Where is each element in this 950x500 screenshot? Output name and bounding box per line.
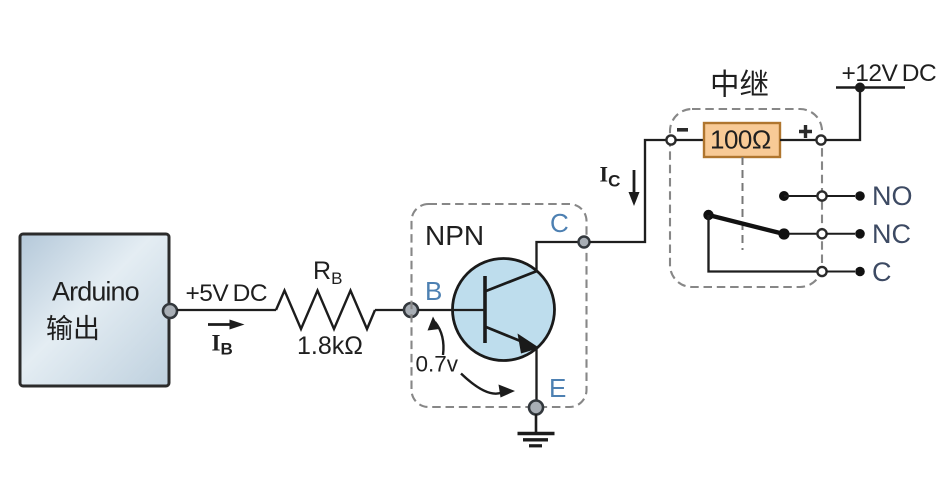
wire: +12VDC rail bbox=[836, 86, 905, 89]
svg-text:C: C bbox=[550, 208, 569, 238]
label minus bbox=[677, 128, 688, 132]
Arduino output block bbox=[20, 234, 169, 386]
node B bbox=[404, 303, 418, 317]
svg-text:+12V DC: +12V DC bbox=[842, 60, 937, 87]
wire: coil to + terminal bbox=[780, 139, 817, 141]
NPN dashed enclosure bbox=[412, 204, 587, 407]
svg-text:IC: IC bbox=[600, 162, 621, 191]
ground bbox=[518, 414, 555, 446]
wire: collector up bbox=[537, 242, 585, 271]
arrow IC current direction bbox=[629, 170, 640, 206]
contact C row bbox=[817, 267, 864, 277]
switch arm bbox=[709, 215, 785, 234]
svg-text:NC: NC bbox=[872, 219, 911, 249]
svg-text:1.8kΩ: 1.8kΩ bbox=[297, 332, 363, 360]
transistor Q1 body bbox=[453, 259, 555, 361]
svg-text:NPN: NPN bbox=[425, 220, 484, 251]
wire: collector to relay bbox=[590, 140, 668, 242]
contact NO row bbox=[779, 191, 865, 201]
arrow: 0.7v to emitter bbox=[461, 374, 515, 398]
switch pivot dot bbox=[703, 210, 713, 220]
switch arm end dot bbox=[778, 228, 789, 239]
node C bbox=[579, 237, 590, 248]
mechanical link dashed bbox=[742, 157, 744, 250]
wire: neg terminal to coil bbox=[675, 139, 704, 141]
svg-text:E: E bbox=[549, 373, 566, 403]
wire: Arduino to resistor bbox=[177, 309, 276, 311]
svg-text:Arduino: Arduino bbox=[52, 277, 139, 307]
wire: + terminal to 12V rail bbox=[825, 88, 860, 141]
junction dot on 12V rail bbox=[855, 83, 865, 93]
wire: emitter down bbox=[535, 348, 537, 401]
svg-text:IB: IB bbox=[212, 331, 233, 359]
svg-text:C: C bbox=[872, 257, 892, 287]
arrow IB current direction bbox=[208, 320, 245, 330]
wire: resistor to node B bbox=[375, 309, 411, 311]
terminal: relay coil positive bbox=[816, 135, 825, 144]
label plus bbox=[799, 125, 812, 138]
svg-text:中继: 中继 bbox=[710, 69, 769, 102]
svg-text:+5V DC: +5V DC bbox=[186, 280, 268, 307]
node: Arduino output pin bbox=[163, 304, 177, 318]
transistor Q1 collector stroke bbox=[486, 271, 537, 291]
svg-text:0.7v: 0.7v bbox=[416, 352, 459, 377]
node E bbox=[529, 401, 543, 415]
svg-text:输出: 输出 bbox=[46, 314, 100, 344]
contact NC row bbox=[789, 229, 865, 239]
svg-text:100Ω: 100Ω bbox=[710, 125, 771, 155]
svg-text:B: B bbox=[425, 276, 442, 306]
wire: base bbox=[418, 309, 485, 311]
terminal: relay coil negative bbox=[666, 135, 675, 144]
resistor RB bbox=[276, 291, 375, 330]
relay dashed enclosure bbox=[670, 109, 822, 287]
transistor Q1 base bar bbox=[483, 276, 487, 343]
transistor Q1 emitter stroke with arrow bbox=[486, 327, 540, 354]
svg-text:NO: NO bbox=[872, 181, 913, 211]
relay coil resistor 100Ω box bbox=[704, 123, 780, 157]
arrow: 0.7v to base wire bbox=[428, 317, 444, 356]
wire: common from pivot bbox=[709, 215, 818, 272]
svg-text:RB: RB bbox=[313, 257, 342, 288]
